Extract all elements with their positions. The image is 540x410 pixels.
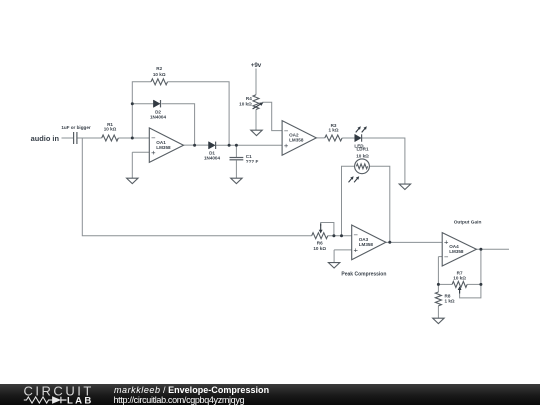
svg-text:+9v: +9v xyxy=(251,62,262,69)
svg-text:audio in: audio in xyxy=(31,134,60,143)
svg-text:1 kΩ: 1 kΩ xyxy=(445,298,455,303)
svg-text:http://circuitlab.com/cgpbq4yz: http://circuitlab.com/cgpbq4yzmjqyg xyxy=(114,395,245,405)
svg-text:??? F: ??? F xyxy=(246,159,259,164)
svg-text:LM358: LM358 xyxy=(359,242,374,247)
svg-text:LM358: LM358 xyxy=(289,138,304,143)
svg-text:Output Gain: Output Gain xyxy=(454,219,482,225)
svg-text:1N4004: 1N4004 xyxy=(150,115,167,120)
svg-text:R7: R7 xyxy=(457,270,463,275)
svg-text:1N4004: 1N4004 xyxy=(204,155,221,160)
svg-text:10 kΩ: 10 kΩ xyxy=(453,276,466,281)
svg-text:R2: R2 xyxy=(156,66,162,71)
svg-text:1 kΩ: 1 kΩ xyxy=(328,128,338,133)
svg-text:LAB: LAB xyxy=(67,395,91,405)
svg-text:LM358: LM358 xyxy=(156,145,171,150)
svg-text:markkleeb / Envelope-Compressi: markkleeb / Envelope-Compression xyxy=(114,385,269,395)
svg-text:10 kΩ: 10 kΩ xyxy=(239,101,252,106)
svg-text:10 kΩ: 10 kΩ xyxy=(313,246,326,251)
svg-text:10 kΩ: 10 kΩ xyxy=(104,127,117,132)
svg-text:LDR1: LDR1 xyxy=(357,147,369,152)
svg-text:LM358: LM358 xyxy=(449,249,464,254)
svg-text:Peak Compression: Peak Compression xyxy=(341,271,386,277)
svg-text:10 kΩ: 10 kΩ xyxy=(356,153,369,158)
svg-text:R6: R6 xyxy=(317,240,323,245)
svg-text:1uF or bigger: 1uF or bigger xyxy=(61,125,91,130)
svg-text:10 kΩ: 10 kΩ xyxy=(153,72,166,77)
